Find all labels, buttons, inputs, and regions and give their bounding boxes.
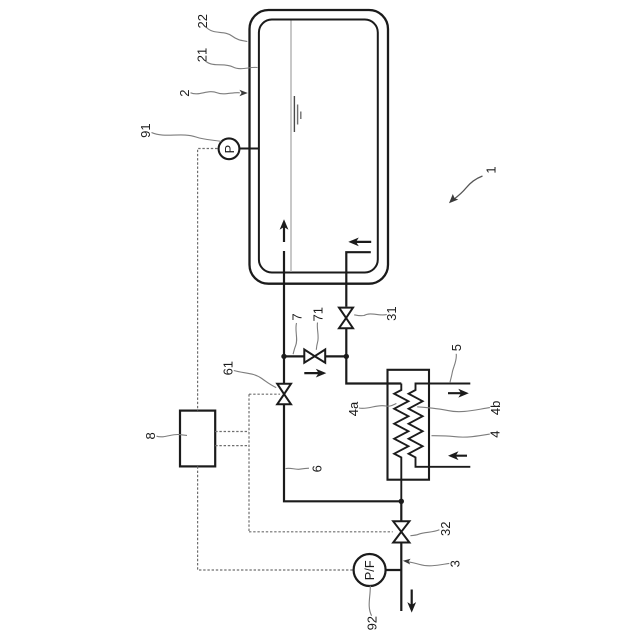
flow arrow left (inlet 4b) (451, 455, 467, 457)
flow arrow right (outlet 5) (448, 392, 466, 394)
heat exchanger 4 shell (388, 370, 430, 480)
leader 4 (432, 434, 490, 437)
tank outer shell 22 (250, 10, 389, 284)
svg-text:4a: 4a (346, 401, 361, 416)
leader 21 (206, 62, 258, 69)
svg-text:3: 3 (448, 560, 463, 567)
leader 5 (450, 354, 456, 383)
svg-text:71: 71 (310, 307, 325, 321)
dashed signal lines controller to valves (215, 394, 393, 532)
svg-text:2: 2 (177, 89, 192, 96)
liquid surface marks (294, 96, 300, 132)
leader 6 (286, 468, 310, 469)
pump P/F 92 (354, 554, 386, 586)
wire pipe valve31 to heat exchanger (346, 328, 401, 383)
wire cross line 7 (right segment) (325, 355, 346, 357)
leader 4a (359, 404, 397, 409)
node junction right (344, 354, 349, 359)
leader 22 (207, 28, 248, 42)
coil 4a (394, 384, 408, 502)
pressure gauge P 91 (219, 138, 240, 159)
svg-text:P: P (222, 145, 237, 154)
svg-text:92: 92 (364, 616, 379, 630)
svg-text:61: 61 (221, 361, 236, 375)
tank inner shell 21 (259, 20, 378, 273)
svg-text:31: 31 (384, 306, 399, 320)
leader 32 (410, 530, 439, 536)
leader 7 (293, 323, 297, 354)
wire outlet pipe 3 (400, 543, 402, 612)
svg-text:22: 22 (195, 14, 210, 28)
svg-text:21: 21 (194, 48, 209, 62)
leader 1 with arrowhead (454, 176, 483, 200)
leader 2 with arrowhead (191, 92, 240, 94)
level gauge line (290, 21, 292, 273)
svg-text:91: 91 (138, 123, 153, 137)
node junction left (281, 354, 286, 359)
valve 61 (277, 384, 291, 405)
dashed signal line gauge to controller to pump (198, 149, 354, 571)
coil 4b (409, 384, 471, 467)
flow arrow left (inside tank) (351, 241, 371, 243)
flow arrow down (outlet) (411, 590, 413, 611)
svg-text:6: 6 (309, 465, 324, 472)
svg-text:32: 32 (438, 522, 453, 536)
node junction bottom (399, 499, 404, 504)
leader 3 with arrowhead (408, 562, 450, 566)
svg-text:7: 7 (290, 313, 305, 320)
controller box 8 (180, 411, 215, 467)
svg-text:5: 5 (449, 344, 464, 351)
wire cross line 7 (left segment) (284, 355, 304, 357)
valve 32 (393, 521, 409, 542)
leader 4b (417, 407, 490, 412)
leader 61 (234, 371, 276, 388)
leader 8 (157, 434, 188, 436)
svg-text:1: 1 (484, 166, 499, 173)
svg-text:8: 8 (143, 432, 158, 439)
wire pipe 6 (284, 404, 401, 501)
valve 71 (304, 350, 325, 363)
wire left riser pipe (tank to valve 61) (283, 251, 285, 384)
leader 31 (354, 314, 387, 316)
wire gauge to tank (239, 148, 259, 150)
wire pump stub (385, 569, 401, 571)
flow arrow up (inside tank) (283, 222, 285, 242)
flow arrow right (under valve 71) (304, 372, 323, 374)
valve 31 (339, 308, 353, 329)
leader 71 (316, 323, 318, 350)
svg-text:P/F: P/F (362, 560, 377, 580)
wire junction to valve 32 (400, 501, 402, 521)
leader 91 (152, 133, 222, 142)
wire tank return elbow (346, 252, 371, 306)
svg-text:4b: 4b (488, 401, 503, 415)
leader 92 (369, 586, 371, 616)
